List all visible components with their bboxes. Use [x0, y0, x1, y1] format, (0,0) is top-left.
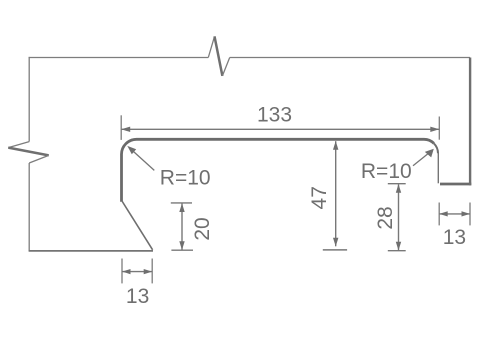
radius label R=10 left leader arrowhead	[127, 146, 136, 154]
dimension 20: bottom tick	[171, 249, 193, 251]
dimension 13 bottom-left: right extension line	[151, 259, 153, 284]
dimension 13 right: left arrowhead	[439, 211, 448, 216]
dimension 133: right extension line	[438, 117, 440, 140]
radius label R=10 left leader line	[129, 147, 154, 170]
dimension 133: left extension line	[120, 115, 122, 140]
dimension 13 right: right arrowhead	[462, 211, 471, 216]
dimension 47: top arrowhead	[333, 141, 338, 150]
dimension 13 right: right extension line	[469, 203, 471, 226]
dimension 13 bottom-left: left extension line	[121, 259, 123, 284]
dimension 13 bottom-left: dimension line	[122, 271, 152, 273]
dimension 20: dimension line	[181, 204, 183, 250]
svg-text:133: 133	[257, 103, 292, 126]
end cap profile: left vertical, top radius, top face, first half of right radius	[122, 139, 434, 202]
dimension 20: top arrowhead	[179, 203, 184, 212]
dimension 133: right arrowhead	[430, 127, 439, 132]
sill left edge lower segment	[28, 163, 30, 251]
svg-text:28: 28	[374, 206, 397, 229]
dimension 20: bottom arrowhead	[179, 241, 184, 250]
break symbol on left edge	[8, 142, 29, 148]
dimension 13 right: dimension line	[439, 213, 470, 215]
sill right end face vertical	[469, 58, 471, 186]
svg-text:R=10: R=10	[361, 160, 412, 183]
dimension 28: bottom tick	[388, 250, 406, 252]
radius label R=10 right leader arrowhead	[425, 149, 434, 158]
break symbol on top edge	[208, 36, 214, 57]
sill bottom edge line	[29, 250, 153, 252]
dimension 28: bottom arrowhead	[396, 242, 401, 251]
dimension 13 right: left extension line	[438, 203, 440, 226]
end cap profile: right thin tail vertical	[437, 152, 439, 183]
svg-text:13: 13	[126, 285, 149, 308]
svg-text:R=10: R=10	[160, 166, 211, 189]
dimension 13 bottom-left: left arrowhead	[122, 269, 131, 274]
dimension 47: bottom tick	[323, 249, 347, 251]
dimension 47: dimension line	[335, 141, 337, 246]
dimension 28: dimension line	[398, 184, 400, 250]
radius label R=10 right leader line	[413, 150, 432, 166]
svg-text:13: 13	[443, 226, 466, 249]
end cap profile: second half of right radius tapering	[434, 143, 438, 153]
dimension 133: dimension line	[121, 128, 439, 130]
dimension 28: top arrowhead	[396, 184, 401, 193]
sill left edge upper segment	[28, 57, 30, 142]
dimension 20: top tick	[171, 202, 192, 204]
svg-text:20: 20	[191, 217, 214, 240]
dimension 47: bottom arrowhead	[333, 238, 338, 247]
end cap profile: bottom right return flange	[440, 183, 471, 186]
sill top edge line left segment	[29, 57, 209, 59]
end cap profile: diagonal bottom tip	[122, 202, 152, 250]
dimension 28: top tick	[388, 183, 406, 185]
sill top edge line right segment	[230, 57, 470, 59]
svg-text:47: 47	[308, 186, 331, 209]
dimension 133: left arrowhead	[121, 127, 130, 132]
dimension 13 bottom-left: right arrowhead	[144, 269, 153, 274]
